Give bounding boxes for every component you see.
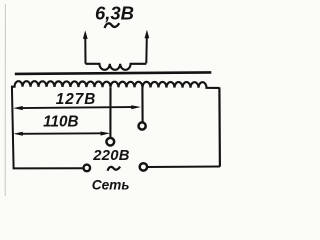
dimension line 110V: [20, 132, 103, 134]
wire: left rail: [12, 86, 14, 169]
dimension line 127V: [20, 107, 133, 108]
terminal: 110V tap circle: [106, 138, 114, 146]
arrowhead: secondary right lead: [145, 30, 150, 39]
arrowhead: secondary left lead: [83, 30, 88, 39]
terminal: 127V tap circle: [139, 122, 146, 129]
faint scan gutter line: [4, 4, 6, 196]
terminal: mains right circle: [140, 163, 147, 170]
wire: tap 110V down: [109, 87, 111, 137]
arrowhead: 110V right: [101, 132, 111, 136]
secondary winding L2 (6,3V): [86, 64, 147, 70]
wire: tap 127V down: [141, 88, 143, 122]
arrowhead: 127V right: [131, 105, 141, 109]
svg-text:6,3В: 6,3В: [95, 2, 134, 23]
AC tilde under 220V: [108, 167, 121, 171]
arrowhead: 110V left: [13, 132, 23, 136]
terminal: mains left circle: [84, 165, 91, 172]
AC tilde under 6,3V: [105, 23, 120, 28]
svg-text:127В: 127В: [56, 91, 97, 108]
primary winding L1: [12, 81, 220, 88]
svg-text:220В: 220В: [92, 148, 130, 164]
arrowhead: 127V left: [13, 106, 23, 110]
wire: secondary left lead: [84, 38, 86, 64]
wire: right rail: [218, 87, 221, 166]
wire: bottom right from terminal: [148, 166, 220, 169]
wire: secondary right lead: [145, 37, 148, 63]
svg-text:Сеmь: Сеmь: [92, 178, 130, 193]
transformer core: [15, 72, 212, 74]
svg-text:110В: 110В: [43, 114, 78, 131]
wire: bottom left to terminal: [13, 167, 84, 169]
